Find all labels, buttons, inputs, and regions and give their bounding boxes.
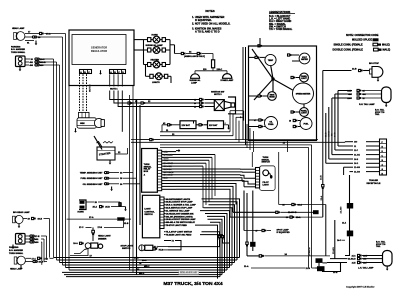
light control switch box (142, 195, 159, 238)
svg-text:75-STOP LIGHT FEED: 75-STOP LIGHT FEED (166, 225, 188, 227)
wire 18 headlamp (25, 36, 63, 39)
svg-text:25-B: 25-B (105, 207, 110, 209)
light switch pin strip (160, 197, 164, 229)
svg-text:480-J: 480-J (144, 265, 150, 268)
generator terminal strip (79, 112, 90, 117)
b/o head lamp (13, 215, 24, 223)
trailer extra verticals (344, 142, 345, 175)
b/o stop label (369, 63, 380, 65)
right bus labels (321, 131, 337, 180)
svg-text:TEMP. SENDING UNIT: TEMP. SENDING UNIT (80, 173, 103, 175)
splice 17-A (117, 217, 125, 220)
svg-text:BEAM: BEAM (269, 96, 275, 99)
ignition drop wires (230, 111, 244, 143)
ts switch feed wires (240, 169, 256, 187)
svg-text:75-MAIN LIGHT SW. FEED: 75-MAIN LIGHT SW. FEED (166, 233, 192, 236)
svg-text:11-B: 11-B (124, 223, 129, 225)
head lamp label (12, 27, 25, 30)
svg-text:MALE): MALE) (382, 44, 390, 47)
wire 91 headlamp (25, 41, 34, 45)
svg-text:NOTES: NOTES (205, 9, 214, 13)
svg-text:461-497-(PARKING LIGHTS): 461-497-(PARKING LIGHTS) (166, 215, 193, 218)
svg-text:SWITCH: SWITCH (262, 162, 271, 164)
svg-text:75-A-STOP LIGHT SWITCH: 75-A-STOP LIGHT SWITCH (166, 231, 193, 234)
temp sending unit (80, 172, 133, 175)
generator regulator U1 (72, 35, 126, 65)
svg-text:R.H. TAIL LAMP: R.H. TAIL LAMP (359, 103, 375, 106)
ts bus vertical (252, 152, 278, 205)
switch column right links (166, 40, 175, 83)
wire 17-C 17-B row (79, 219, 124, 229)
wire 25 horn (87, 202, 121, 204)
battery wire left (162, 122, 180, 132)
svg-text:LIGHT: LIGHT (301, 78, 307, 80)
svg-text:NOTE 3: NOTE 3 (214, 94, 222, 96)
svg-text:16-HEADLIGHT DIMMER SW.: 16-HEADLIGHT DIMMER SW. (166, 212, 195, 215)
head light dimmer label (98, 235, 111, 241)
svg-text:FUEL SENDING UNIT: FUEL SENDING UNIT (81, 178, 104, 180)
parking lamp 2 labels (9, 246, 24, 255)
horn button (119, 202, 127, 211)
horn switch label (152, 34, 159, 36)
svg-text:IGNITION SW: IGNITION SW (211, 91, 224, 93)
copyright (346, 286, 375, 289)
svg-text:23-B: 23-B (321, 175, 323, 180)
wire 490-A (25, 241, 42, 265)
trailer receptacle label (367, 179, 382, 185)
svg-text:HORN: HORN (78, 211, 85, 213)
svg-text:12V BAT: 12V BAT (182, 124, 191, 127)
heater switch label (151, 59, 160, 62)
head lamp 2 label (10, 268, 23, 271)
stop light switch label (121, 245, 134, 250)
svg-text:22-461: 22-461 (354, 154, 360, 157)
svg-text:NOTE 1: NOTE 1 (110, 89, 118, 91)
cluster X wires (251, 49, 293, 100)
vertical connectors 75 (168, 236, 230, 247)
horn label (78, 211, 85, 213)
lights switch (150, 73, 168, 80)
splice right bottom 2 (316, 266, 325, 271)
svg-text:23-BLACKOUT STOP LAMP: 23-BLACKOUT STOP LAMP (166, 201, 194, 204)
svg-text:24-B: 24-B (334, 132, 337, 137)
svg-text:46-INSTRUMENT LIGHTS: 46-INSTRUMENT LIGHTS (166, 198, 191, 201)
wire 19-B (23, 217, 50, 257)
dome lamp tee (195, 68, 227, 74)
head lamp HL2 (14, 256, 25, 265)
connector code legend (333, 34, 391, 51)
svg-text:SPEEDOMETER: SPEEDOMETER (296, 94, 311, 96)
dome lamp (221, 74, 234, 83)
svg-text:22-B-SERVICE STOP LAMP: 22-B-SERVICE STOP LAMP (166, 207, 193, 210)
svg-text:FUEL: FUEL (304, 124, 310, 126)
battery ground (224, 125, 230, 130)
svg-text:B/O HEAD LAMP: B/O HEAD LAMP (13, 211, 30, 214)
dimmer switch S2 (73, 242, 103, 253)
svg-text:21-A: 21-A (244, 265, 249, 268)
switch column left feeds (144, 40, 150, 77)
svg-text:MOLDED SPLICE: MOLDED SPLICE (352, 39, 372, 42)
pilot light label (263, 182, 270, 186)
terminal strip A-B-C (80, 70, 92, 74)
svg-text:SINGLE CONN. (FEMALE: SINGLE CONN. (FEMALE (334, 44, 363, 47)
svg-text:25-A: 25-A (93, 206, 98, 209)
note 2 label (90, 84, 92, 92)
starter relay lever (97, 142, 114, 148)
wire 491 parking (25, 61, 57, 64)
wire 21-A vert (246, 193, 248, 242)
ignition switch S1 (190, 98, 235, 110)
regulator output wires (110, 74, 123, 86)
dashed field wires (80, 74, 87, 112)
ground headlamp (35, 41, 38, 46)
svg-text:B.O. MARKER: B.O. MARKER (9, 249, 23, 252)
wire 12 rows to ignition (110, 91, 200, 132)
svg-text:REGULATOR: REGULATOR (91, 49, 107, 53)
relay GRD arrow (176, 150, 180, 152)
oil pres gauge G7 (249, 117, 278, 130)
light switch wire labels (164, 198, 196, 227)
bottom bus labels (134, 257, 150, 275)
relay right verticals (203, 155, 215, 209)
ambulance only label (184, 55, 205, 58)
starter M1 (97, 147, 115, 160)
ground generator (74, 128, 77, 133)
wire to fuse (202, 54, 213, 60)
rh tail rows (332, 89, 382, 100)
dome fuse F1 (212, 60, 215, 68)
turn signal switch labels (262, 157, 271, 164)
volt meter G2 (288, 53, 310, 64)
wire 24-A (342, 209, 349, 231)
horn switch (148, 36, 166, 43)
svg-text:481 - 490: 481 - 490 (164, 168, 172, 171)
wire 25-A 25-B (93, 206, 121, 209)
svg-text:OIL SENDING UNIT: OIL SENDING UNIT (83, 184, 104, 186)
svg-text:490-491-A T/S SWITCH RELAY: 490-491-A T/S SWITCH RELAY (166, 221, 196, 224)
relay wire labels (162, 152, 199, 190)
junction dot cluster (271, 77, 274, 80)
svg-text:LIGHT: LIGHT (263, 184, 270, 186)
wire 21-A stub (246, 256, 248, 268)
relay lead bends (170, 155, 244, 218)
svg-text:LIGHTS: LIGHTS (152, 82, 160, 84)
wire 22-461 vert (332, 220, 335, 263)
wire vertical 308 (308, 145, 311, 268)
lh tail lamp (383, 251, 393, 271)
svg-text:T/S = TURN SIGNAL: T/S = TURN SIGNAL (269, 28, 293, 31)
connector amb 2 (197, 52, 201, 54)
svg-text:17-A: 17-A (46, 32, 51, 35)
generator GEN (77, 118, 104, 128)
cluster left wires (243, 47, 246, 145)
lh tail label (358, 266, 374, 269)
svg-text:24-B: 24-B (354, 158, 359, 161)
svg-text:24-D: 24-D (354, 162, 359, 165)
wire 17 headlamp (25, 32, 66, 36)
surgical lamp switch (148, 47, 166, 54)
ts switch pin strip (256, 168, 260, 188)
trailer receptacle J1 (380, 139, 387, 176)
battery B1 (180, 121, 196, 129)
svg-text:LIGHT: LIGHT (144, 209, 151, 211)
svg-text:19-BLACKOUT DRIVING LAMP: 19-BLACKOUT DRIVING LAMP (166, 218, 197, 221)
svg-text:460 - 461: 460 - 461 (164, 165, 172, 168)
vertical conn right (322, 185, 324, 218)
wire 17-E (25, 235, 47, 260)
svg-text:HEAD LIGHT: HEAD LIGHT (98, 235, 111, 238)
wire 17-C 17-D row (26, 257, 54, 260)
wire 48 below cluster (279, 141, 288, 153)
spot lamp label (277, 228, 291, 234)
svg-text:21: 21 (354, 146, 356, 148)
svg-text:18-A: 18-A (73, 242, 78, 245)
wire 491-C (25, 238, 44, 262)
wire 21-E bottom (322, 263, 341, 275)
wire 22-460 label (340, 206, 343, 214)
wire bus center (130, 86, 141, 275)
svg-text:NOTE 2: NOTE 2 (90, 84, 92, 92)
splice 22-460 (313, 210, 319, 214)
stop light switch S3 (139, 245, 168, 252)
svg-text:22-460: 22-460 (354, 171, 360, 174)
svg-text:SPOT LAMP: SPOT LAMP (277, 228, 290, 231)
note 1 label (110, 89, 118, 91)
svg-text:TAIL: TAIL (375, 113, 380, 116)
svg-text:B/O STOP: B/O STOP (369, 63, 380, 65)
wire 20 parking (25, 58, 54, 61)
ground b/o head lamp (18, 224, 21, 229)
bo tail label block 2 (376, 240, 386, 248)
vertical conn pair mid (246, 242, 248, 256)
svg-text:METER: METER (301, 59, 308, 61)
instrument cluster box (249, 46, 317, 141)
rh tail label (359, 103, 375, 106)
ts switch circle (263, 170, 270, 176)
wire 23-B row (323, 69, 371, 72)
wire surgical feed (175, 45, 182, 54)
heater switch (148, 61, 166, 68)
svg-text:22 - 498-M: 22 - 498-M (164, 162, 174, 165)
speedometer G4 (293, 83, 314, 104)
svg-text:21- SERVICE TAIL LAMP: 21- SERVICE TAIL LAMP (166, 209, 190, 212)
svg-text:22-461-D: 22-461-D (348, 258, 356, 261)
panel light G3 (291, 73, 308, 82)
svg-text:48: 48 (289, 119, 291, 122)
svg-text:17-E: 17-E (35, 236, 40, 238)
svg-text:L.H. TAIL LAMP: L.H. TAIL LAMP (358, 266, 374, 269)
svg-text:RECEPTACLE: RECEPTACLE (367, 182, 382, 185)
ground parking lamp 2 (12, 245, 15, 250)
svg-text:22-460: 22-460 (354, 166, 360, 169)
wire bus left (54, 34, 70, 271)
title (163, 281, 222, 287)
wire bus middle (131, 132, 345, 148)
parking lamp PL2 (16, 234, 26, 245)
wire bus right top (326, 91, 338, 164)
splice right bottom 1 (312, 258, 323, 263)
terminal strip A-B-C-D (110, 70, 126, 74)
connector amb 1 (181, 52, 185, 54)
svg-text:(AMBULANCE ONLY): (AMBULANCE ONLY) (184, 55, 205, 58)
svg-text:TAIL: TAIL (376, 245, 381, 248)
spot lamp wire (244, 191, 271, 233)
svg-text:IF EQUIPPED.: IF EQUIPPED. (195, 18, 212, 22)
lights switch label (152, 82, 160, 84)
light switch lower bends (200, 232, 223, 236)
svg-text:22-461-B: 22-461-B (308, 247, 311, 256)
panel light G6 (291, 98, 308, 116)
svg-text:17-B: 17-B (98, 227, 103, 229)
wire right bottom links (319, 263, 330, 269)
svg-text:GENERATOR: GENERATOR (91, 46, 107, 50)
svg-text:22 - 460-E: 22 - 460-E (164, 174, 174, 177)
wire 250 down (252, 191, 254, 252)
wire 24-C label (337, 236, 349, 255)
svg-text:460: 460 (363, 93, 366, 96)
notes text block (192, 9, 231, 33)
b/o stop lamp (370, 67, 383, 82)
svg-text:HEAD LAMP: HEAD LAMP (12, 27, 25, 30)
svg-text:DIMMER: DIMMER (98, 238, 107, 240)
relay pin strip (157, 150, 161, 191)
wire 18-B row (26, 260, 48, 263)
fuel sending unit (81, 177, 136, 180)
turn signal relay box (142, 149, 158, 193)
temp gauge G1 (249, 54, 277, 65)
svg-text:SWITCH: SWITCH (144, 214, 153, 216)
svg-text:21-D: 21-D (326, 132, 328, 137)
svg-text:23-B: 23-B (352, 69, 357, 71)
svg-text:17-C: 17-C (79, 227, 84, 229)
wire bend right mid (238, 124, 254, 152)
svg-text:M37 TRUCK, 3/4 TON 4X4: M37 TRUCK, 3/4 TON 4X4 (163, 281, 222, 287)
svg-text:GEN: GEN (80, 123, 85, 125)
ground parking lamp (19, 67, 22, 72)
wire center bends (130, 269, 132, 271)
svg-text:29-C: 29-C (142, 260, 147, 262)
svg-text:DOUBLE CONN. (FEMALE: DOUBLE CONN. (FEMALE (333, 49, 364, 52)
svg-text:22 - 461-A: 22 - 461-A (164, 153, 174, 156)
parking lamp PL1 (16, 56, 26, 67)
ground arrow regulator (99, 70, 102, 75)
wire 21-A row (244, 262, 316, 270)
svg-text:NOTE: CONNECTOR CODE: NOTE: CONNECTOR CODE (346, 34, 379, 37)
high beam G5 (249, 92, 277, 101)
svg-text:STOP LIGHT: STOP LIGHT (121, 245, 134, 247)
svg-text:22-461: 22-461 (332, 246, 335, 254)
svg-text:IF EQUIPPED: IF EQUIPPED (277, 232, 291, 234)
starter cable (94, 136, 102, 150)
svg-text:22-460: 22-460 (340, 206, 343, 214)
vertical connector dimmer (92, 227, 95, 241)
wire seg (186, 51, 197, 54)
svg-text:120-C: 120-C (217, 69, 223, 71)
wire 23-A vert (320, 191, 323, 218)
svg-text:LAMP: LAMP (191, 82, 198, 85)
svg-text:B.O. MARKER: B.O. MARKER (11, 48, 25, 51)
svg-text:19-B.O. MARKER & TAIL LAMP: 19-B.O. MARKER & TAIL LAMP (166, 204, 197, 207)
wire 22-460B row (233, 211, 313, 214)
wire 11-B (124, 219, 131, 225)
splice trailer 2 (347, 231, 353, 237)
svg-text:TRAILER: TRAILER (369, 179, 379, 182)
svg-text:TEMP: TEMP (268, 60, 274, 62)
wire 490 parking (25, 64, 60, 67)
wire 73 (164, 241, 181, 250)
splice trailer 1 (347, 175, 353, 209)
svg-text:491-B: 491-B (40, 61, 46, 64)
svg-text:21-E: 21-E (333, 272, 338, 274)
b/o head lamp label (13, 211, 30, 214)
svg-text:460-L: 460-L (164, 156, 170, 159)
svg-text:460: 460 (354, 141, 357, 144)
wire bends lightswitch to bottom (195, 199, 240, 279)
svg-text:26-A: 26-A (134, 257, 139, 260)
cluster feed conn (255, 38, 262, 47)
svg-text:19-B: 19-B (38, 219, 43, 221)
svg-text:12V BAT: 12V BAT (209, 124, 218, 127)
head lamp HL1 (14, 32, 25, 41)
wire 38 row (279, 203, 326, 206)
svg-text:Copyright 1997 C.B Mueller: Copyright 1997 C.B Mueller (346, 286, 375, 289)
svg-text:17-A: 17-A (89, 216, 94, 219)
svg-text:460 - 461 A: 460 - 461 A (164, 171, 174, 174)
splice mid bottom (250, 242, 255, 247)
wire 24 long row (247, 253, 330, 257)
svg-text:18-B: 18-B (39, 262, 44, 264)
ignition sw label (211, 91, 224, 96)
wire bus bottom (54, 258, 240, 277)
svg-text:A TO B, AND C TO D: A TO B, AND C TO D (195, 29, 220, 33)
svg-text:PARKING: PARKING (11, 45, 21, 48)
svg-text:LIGHT: LIGHT (301, 113, 307, 115)
pilot light bulb (270, 175, 273, 179)
svg-text:PRES.: PRES. (268, 124, 274, 126)
ground head lamp 2 (20, 265, 23, 270)
trailer feed rows (326, 141, 380, 174)
svg-text:2. NOT USED ON ALL MODELS.: 2. NOT USED ON ALL MODELS. (192, 22, 231, 26)
ignition bracket (228, 97, 236, 114)
wire 17-A row (67, 216, 117, 219)
lh tail rows (327, 254, 383, 264)
svg-text:CONTROL: CONTROL (144, 211, 155, 213)
svg-text:MALE): MALE) (383, 49, 391, 52)
turn signal switch box (260, 166, 276, 191)
horn H1 (79, 200, 86, 210)
svg-text:BOX: BOX (144, 171, 149, 173)
surgical lamp dome (190, 74, 202, 85)
generator regulator outer box (69, 30, 134, 86)
bo tail label block (375, 108, 385, 116)
battery link (196, 124, 208, 126)
svg-text:17-D: 17-D (44, 258, 49, 260)
wire bus right lower (323, 71, 326, 256)
svg-text:460-B: 460-B (328, 131, 331, 137)
svg-text:481-L: 481-L (139, 272, 145, 275)
wire starter feed (109, 148, 128, 165)
svg-text:TURN SIGNAL: TURN SIGNAL (9, 252, 24, 255)
wire horn sw to regulator (132, 39, 148, 41)
wire 23 row (230, 216, 323, 219)
parking lamp labels (11, 45, 26, 54)
oil sending unit (83, 183, 140, 186)
fuel gauge G8 (289, 118, 312, 130)
svg-text:GRD: GRD (164, 152, 169, 154)
rh tail lamp (382, 87, 392, 107)
detail box (179, 270, 199, 274)
svg-text:21-A: 21-A (306, 267, 311, 270)
